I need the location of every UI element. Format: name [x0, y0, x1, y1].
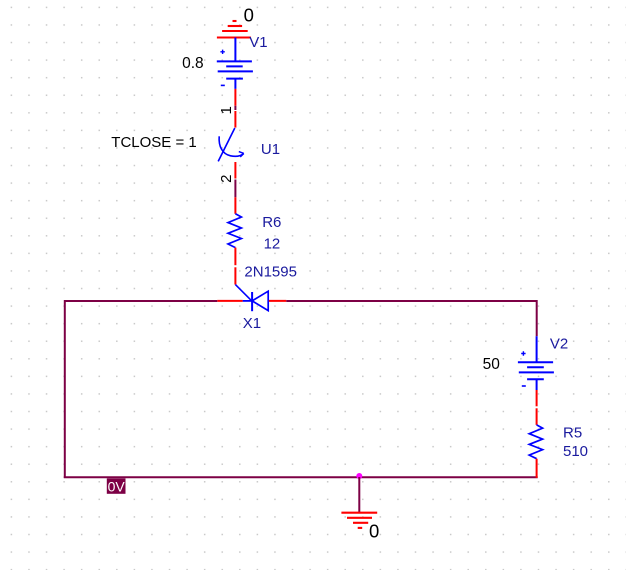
R6 bottom pin	[234, 248, 236, 266]
wire top bus right	[286, 300, 536, 302]
battery V2	[518, 336, 554, 390]
V2 bottom pin	[536, 390, 538, 406]
U1 pin 2 stub	[234, 162, 236, 179]
wire V1 to U1	[234, 106, 236, 110]
svg-text:R6: R6	[262, 214, 281, 231]
wire bottom bus	[64, 476, 538, 478]
wire ground stem	[358, 477, 360, 513]
battery V1	[217, 38, 253, 89]
X1 cathode stub	[243, 300, 253, 302]
svg-text:50: 50	[483, 356, 501, 373]
svg-text:1: 1	[218, 106, 235, 114]
resistor R5	[529, 425, 542, 478]
ground 0 (bottom)	[341, 513, 377, 528]
X1 left pin	[217, 300, 242, 302]
V2 minus mark	[522, 385, 526, 387]
svg-text:12: 12	[264, 235, 281, 252]
svg-text:0V: 0V	[108, 478, 126, 494]
svg-text:TCLOSE = 1: TCLOSE = 1	[111, 134, 196, 151]
U1 actuation arc	[219, 136, 243, 156]
R5 bottom pin	[536, 459, 538, 478]
U1 blade	[218, 128, 235, 161]
V1 minus mark	[221, 84, 225, 86]
svg-text:2N1595: 2N1595	[244, 263, 297, 280]
resistor R6	[228, 197, 241, 265]
svg-text:510: 510	[563, 443, 588, 460]
X1 triangle	[252, 291, 268, 310]
svg-text:V2: V2	[550, 336, 568, 353]
R6 top pin	[234, 197, 236, 214]
svg-text:U1: U1	[261, 141, 280, 158]
ground 0 (top)	[217, 21, 251, 38]
U1 arc arrowhead	[239, 152, 244, 157]
net label 0V	[107, 478, 126, 494]
thyristor X1	[217, 285, 286, 312]
svg-text:0.8: 0.8	[182, 55, 204, 72]
svg-text:R5: R5	[563, 425, 582, 442]
X1 gate diagonal	[235, 285, 251, 301]
R5 zigzag body	[529, 425, 542, 459]
wire left side	[64, 300, 66, 478]
V2 plus mark	[521, 351, 525, 355]
wire V2 to R5	[536, 408, 538, 425]
wire U1 to R6	[234, 180, 236, 198]
svg-text:V1: V1	[249, 34, 267, 51]
X1 right pin	[269, 300, 286, 302]
wire right top (corner to V2)	[536, 300, 538, 336]
wire R6 to X1 gate	[234, 267, 236, 284]
V1 plus mark	[220, 50, 224, 54]
svg-text:X1: X1	[243, 315, 261, 332]
svg-text:0: 0	[369, 521, 379, 542]
R6 zigzag body	[228, 214, 241, 248]
switch U1	[218, 111, 244, 179]
X1 cathode bar	[251, 292, 253, 311]
V1 bottom pin	[234, 89, 236, 106]
svg-text:0: 0	[244, 5, 254, 26]
wire top bus left	[65, 300, 218, 302]
U1 pin 1 stub	[234, 111, 236, 128]
svg-text:2: 2	[218, 175, 235, 183]
junction	[356, 473, 362, 479]
